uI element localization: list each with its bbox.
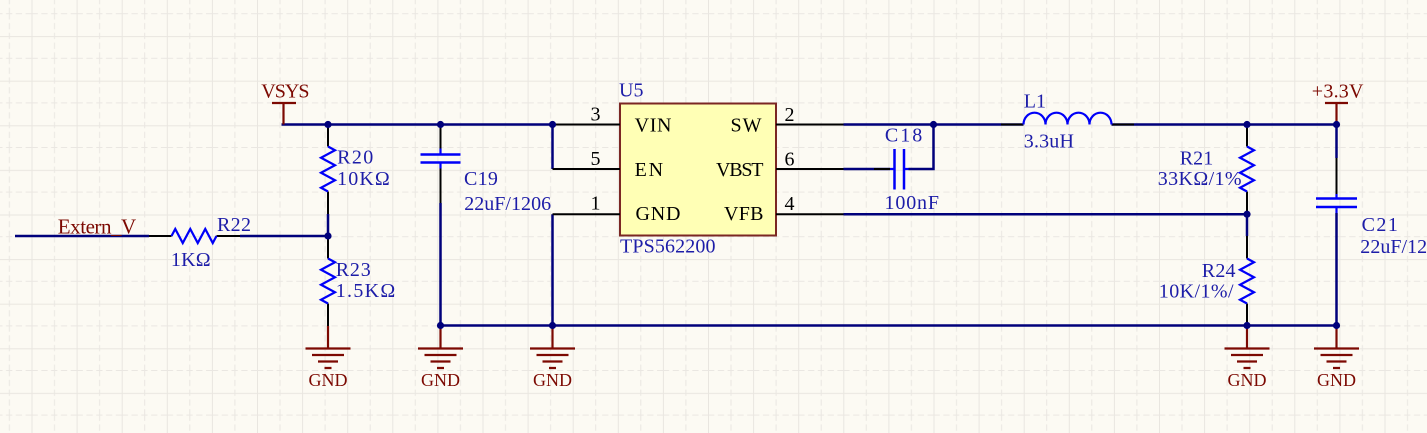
junction node C18/SW — [930, 121, 937, 128]
svg-text:L1: L1 — [1024, 91, 1046, 113]
junction node IC GND rail — [549, 322, 556, 329]
svg-text:R22: R22 — [217, 214, 251, 236]
wire bottom rail — [441, 324, 1337, 327]
wire R24 top — [1246, 214, 1249, 236]
power port +3.3V — [1325, 103, 1348, 125]
svg-text:GND: GND — [421, 370, 460, 390]
svg-text:C19: C19 — [464, 168, 498, 190]
resistor R21 — [1158, 125, 1254, 215]
junction node C19 bottom rail — [437, 322, 444, 329]
capacitor C19 — [421, 125, 552, 215]
svg-text:10K/1%/: 10K/1%/ — [1159, 281, 1234, 303]
svg-text:1: 1 — [591, 193, 601, 215]
svg-text:R21: R21 — [1180, 148, 1214, 170]
junction node C19 top — [437, 121, 444, 128]
wire Extern_V — [15, 235, 149, 238]
junction node +3.3V/C21 — [1333, 121, 1340, 128]
junction node VSYS/R20 — [324, 121, 331, 128]
svg-text:100nF: 100nF — [885, 192, 940, 214]
wire R22 to node — [240, 235, 328, 238]
pin 3 VIN — [553, 103, 672, 136]
svg-text:VFB: VFB — [724, 203, 764, 225]
junction node C21 bottom rail — [1333, 322, 1340, 329]
ground symbol below C19 — [418, 326, 463, 391]
svg-text:GND: GND — [1228, 370, 1267, 390]
wire top rail left (VSYS to IC) — [282, 123, 553, 126]
junction node R22/R20/R23 — [324, 232, 331, 239]
wire inductor to +3.3V — [1112, 123, 1337, 126]
svg-text:2: 2 — [785, 104, 795, 126]
wire R20 bottom — [327, 214, 330, 236]
svg-text:4: 4 — [785, 193, 795, 215]
junction node VIN/EN — [549, 121, 556, 128]
wire SW to inductor — [844, 123, 1024, 126]
svg-text:GND: GND — [636, 203, 681, 225]
svg-text:33KΩ/1%: 33KΩ/1% — [1158, 168, 1242, 190]
svg-text:R23: R23 — [336, 259, 371, 281]
junction node R21 top — [1243, 121, 1250, 128]
inductor L1 — [1001, 91, 1134, 153]
svg-text:6: 6 — [785, 148, 795, 170]
svg-text:C18: C18 — [885, 125, 922, 147]
wire GND riser — [551, 214, 554, 325]
power port VSYS — [272, 103, 296, 125]
wire VFB to divider — [844, 213, 1248, 216]
svg-text:10KΩ: 10KΩ — [337, 168, 390, 190]
resistor R20 — [321, 125, 390, 215]
svg-text:+3.3V: +3.3V — [1312, 81, 1364, 103]
ground symbol below C21 — [1314, 326, 1359, 391]
capacitor C21 — [1316, 158, 1427, 258]
svg-text:U5: U5 — [619, 80, 643, 102]
svg-text:VBST: VBST — [716, 159, 764, 181]
svg-text:GND: GND — [1317, 370, 1356, 390]
pin 5 EN — [553, 148, 664, 181]
resistor R22 — [149, 214, 251, 271]
resistor R23 — [321, 236, 395, 326]
pin 6 VBST — [716, 148, 844, 181]
junction node R24 bottom rail — [1243, 322, 1250, 329]
capacitor C18 — [874, 125, 939, 215]
ground symbol below IC GND riser — [530, 326, 575, 391]
svg-text:22uF/1206: 22uF/1206 — [464, 193, 551, 215]
svg-text:1.5KΩ: 1.5KΩ — [336, 280, 396, 302]
ground symbol below R24 — [1225, 326, 1270, 391]
svg-text:22uF/1206: 22uF/1206 — [1360, 236, 1427, 258]
wire C21 top — [1335, 125, 1338, 159]
svg-text:VSYS: VSYS — [261, 81, 309, 103]
wire VBST to C18 — [844, 168, 891, 171]
pin 1 GND — [553, 193, 681, 226]
wire C19 bottom — [439, 203, 442, 326]
svg-text:SW: SW — [731, 115, 762, 137]
svg-text:3.3uH: 3.3uH — [1024, 130, 1074, 152]
svg-text:C21: C21 — [1362, 214, 1398, 236]
wire EN riser — [551, 125, 554, 170]
junction node VFB/R21/R24 — [1243, 211, 1250, 218]
pin 2 SW — [731, 104, 844, 137]
svg-text:TPS562200: TPS562200 — [620, 236, 716, 258]
op-amp U5 (IC TPS562200) — [619, 80, 776, 258]
resistor R24 — [1159, 236, 1254, 326]
pin 4 VFB — [724, 193, 844, 225]
svg-text:VIN: VIN — [635, 115, 672, 137]
svg-text:5: 5 — [591, 148, 601, 170]
svg-text:R20: R20 — [337, 146, 373, 168]
svg-text:GND: GND — [533, 370, 572, 390]
svg-text:3: 3 — [591, 103, 601, 125]
svg-text:EN: EN — [635, 159, 664, 181]
svg-text:GND: GND — [309, 370, 348, 390]
ground symbol below R23 — [306, 326, 351, 390]
svg-text:1KΩ: 1KΩ — [171, 249, 211, 271]
svg-text:Extern_V: Extern_V — [58, 214, 136, 238]
wire C18 riser — [909, 125, 934, 170]
svg-text:R24: R24 — [1202, 260, 1236, 282]
wire C21 bottom — [1335, 213, 1338, 326]
